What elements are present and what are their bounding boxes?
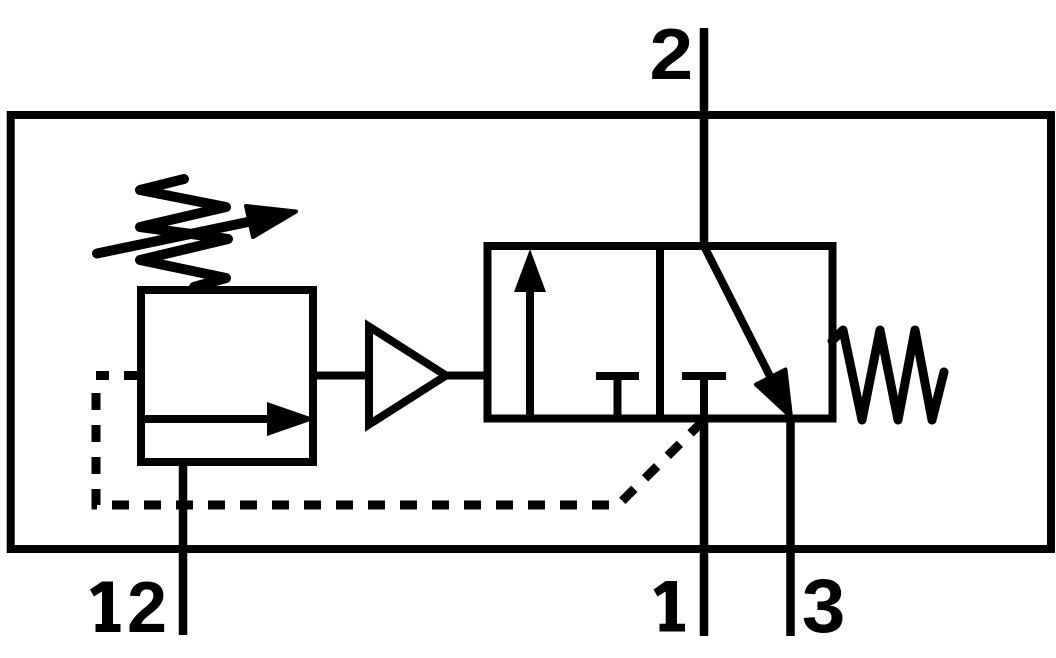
valve left square: blocked port T (port 3) — [596, 372, 639, 380]
wire: port 2 line — [700, 28, 709, 250]
valve right square: blocked port T (port 1) — [682, 372, 726, 380]
pressure regulator box R — [141, 290, 313, 462]
wire: port 3 line — [786, 417, 795, 636]
enclosure box (valve assembly boundary) — [11, 115, 1051, 549]
valve right square: flow arrow 2 to 3 (diagonal) — [704, 246, 780, 396]
regulator internal flow arrow — [141, 415, 272, 423]
wire: port 12 line — [179, 462, 188, 635]
3/2 valve body: left position square — [488, 246, 661, 419]
adjustable spring (zigzag) above regulator — [140, 179, 228, 287]
adjustment arrow through spring — [97, 219, 262, 254]
valve left square: flow arrow up (1 to 2) — [526, 288, 534, 418]
wire: amplifier to valve — [446, 372, 487, 380]
svg-text:3: 3 — [802, 564, 845, 649]
wire: port 1 line — [700, 418, 709, 636]
label port 12 — [90, 582, 121, 633]
return spring at valve right — [832, 330, 944, 420]
pilot amplifier triangle — [369, 327, 446, 425]
pilot control line (dashed): regulator stub — [96, 371, 141, 380]
pilot control line (dashed) from regulator to valve port 1 — [96, 393, 703, 505]
svg-text:2: 2 — [650, 14, 694, 94]
label port 1 — [654, 581, 686, 632]
wire: regulator output to amplifier — [313, 372, 369, 380]
svg-text:2: 2 — [127, 568, 167, 648]
3/2 valve body: right position square — [660, 246, 833, 419]
